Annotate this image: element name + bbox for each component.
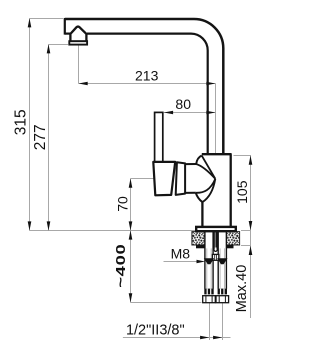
wire: extension line top of 315 (tube top): [30, 18, 64, 20]
anchor clamp right: [217, 258, 227, 264]
handle lever bar: [155, 112, 163, 162]
nut left: [203, 296, 216, 303]
leader M8: [164, 261, 204, 263]
stud M8: [212, 232, 218, 261]
dimension 213 line: [79, 83, 216, 85]
wire: extension line countertop bottom for Max.40: [241, 245, 251, 247]
svg-text:M8: M8: [171, 245, 191, 261]
svg-text:80: 80: [175, 96, 191, 112]
wire: extension line body top for 105: [234, 155, 252, 157]
svg-text:70: 70: [115, 196, 131, 212]
dimension ~400 line: [130, 231, 132, 303]
anchor clamp left: [204, 258, 214, 264]
svg-text:1/2"II3/8": 1/2"II3/8": [126, 323, 185, 339]
aerator: [69, 27, 87, 45]
nut right: [216, 296, 229, 303]
handle grip: [153, 162, 175, 195]
wire: tube centerline extension for 213/80: [215, 84, 217, 154]
cone joint fan: [185, 156, 215, 203]
leader line for thread label: [123, 337, 231, 339]
svg-text:213: 213: [135, 67, 159, 83]
wire: extension line at handle level for 70: [131, 178, 155, 180]
dimension 315 line: [29, 19, 31, 231]
wire: extension line at hose nut bottom for 400: [131, 302, 202, 304]
handle collar: [176, 162, 185, 195]
svg-text:315: 315: [13, 109, 30, 135]
dimension 105 and Max.40 shared line: [250, 156, 252, 319]
spout tube inner edge: [87, 34, 208, 154]
dimension 277 line: [48, 45, 50, 231]
spout tube bottom left segment: [65, 32, 71, 34]
flange: [196, 227, 236, 231]
hose left: [205, 232, 213, 289]
hose right: [218, 232, 226, 289]
wire: extension line top of 277 (aerator bottom): [49, 44, 69, 46]
svg-text:~400: ~400: [113, 244, 128, 288]
svg-text:277: 277: [32, 124, 49, 150]
dimension 80 line: [164, 112, 216, 114]
spout tube outer edge: [65, 19, 224, 154]
wire: hose centerlines below nuts: [209, 303, 211, 340]
ferrule left: [204, 289, 213, 295]
body: [202, 154, 232, 227]
wire: extension line countertop top for Max.40: [241, 230, 251, 232]
spout tube left cap: [64, 18, 66, 35]
washer right (below counter): [226, 245, 233, 248]
wire: shared bottom extension line at countertop level: [30, 230, 197, 232]
wire: extension line below aerator for 213: [78, 45, 80, 84]
dimension 70 line: [130, 179, 132, 231]
ferrule right: [218, 289, 227, 295]
countertop left slab: [192, 232, 205, 245]
washer left (below counter): [196, 245, 205, 248]
svg-text:105: 105: [234, 180, 250, 204]
countertop right slab: [226, 232, 239, 245]
svg-text:Max.40: Max.40: [234, 265, 250, 313]
